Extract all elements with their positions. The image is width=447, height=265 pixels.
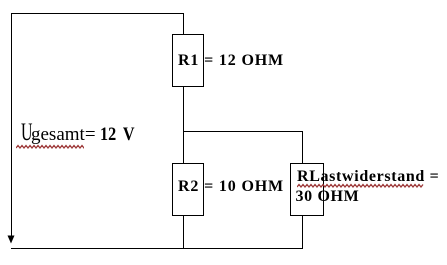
label R2 = 10 OHM (178, 179, 284, 195)
wire right upper lead (302, 131, 303, 163)
arrowhead down (current arrow) (6, 234, 17, 245)
label 30 OHM (line 2) (296, 189, 360, 205)
resistor R1 (172, 34, 204, 87)
resistor RLastwiderstand (290, 163, 324, 216)
resistor R2 (172, 163, 204, 216)
wire RL bottom lead (302, 216, 303, 248)
spellcheck squiggle under Ugesamt (16, 144, 84, 150)
label U gesamt = 12 V (21, 121, 141, 147)
wire middle horizontal (183, 131, 303, 132)
wire top horizontal (11, 13, 184, 14)
wire R2 bottom lead (183, 216, 184, 248)
spellcheck squiggle under RLastwiderstand (297, 183, 424, 189)
wire left vertical (11, 13, 12, 236)
wire R1 bottom lead to R2 (183, 87, 184, 163)
wire bottom horizontal (11, 248, 303, 249)
label RLastwiderstand = 30 OHM (297, 169, 439, 185)
label R1 = 12 OHM (178, 53, 284, 69)
wire R1 top lead (183, 13, 184, 34)
